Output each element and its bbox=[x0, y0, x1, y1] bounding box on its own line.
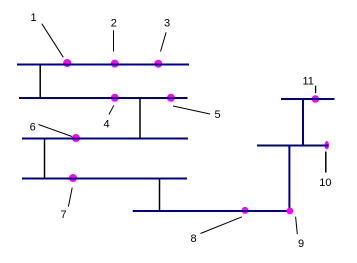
leader line 9 bbox=[296, 217, 298, 235]
leader line 1 bbox=[42, 24, 64, 58]
leader line 4 bbox=[109, 105, 114, 114]
segment line L4 bbox=[22, 178, 187, 180]
connector black V2 bbox=[139, 98, 141, 140]
svg-text:6: 6 bbox=[30, 122, 36, 134]
svg-text:4: 4 bbox=[103, 118, 109, 130]
marker dot 11 bbox=[312, 95, 320, 103]
svg-text:9: 9 bbox=[298, 238, 304, 250]
segment line L2 bbox=[19, 97, 188, 99]
marker dot 7 bbox=[69, 174, 77, 182]
marker dot 10 bbox=[325, 141, 329, 149]
leader line 6 bbox=[39, 125, 73, 137]
connector blue RV1 bbox=[302, 99, 304, 146]
svg-text:3: 3 bbox=[164, 18, 170, 30]
leader tick 10 bbox=[325, 152, 327, 173]
marker dot 2 bbox=[111, 60, 119, 68]
leader line 7 bbox=[68, 188, 72, 207]
marker dot 5 bbox=[167, 94, 175, 102]
marker dot 3 bbox=[154, 60, 162, 68]
marker dot 1 bbox=[63, 59, 71, 67]
segment line L3 bbox=[22, 138, 188, 140]
marker dot 6 bbox=[72, 134, 80, 142]
marker dot 8 bbox=[242, 207, 249, 214]
svg-text:7: 7 bbox=[60, 209, 66, 221]
connector black V4 bbox=[159, 178, 161, 212]
svg-text:10: 10 bbox=[319, 177, 331, 189]
segment line R-mid bbox=[257, 145, 329, 147]
segment line R-top bbox=[281, 98, 335, 100]
connector blue RV2 bbox=[288, 146, 290, 212]
svg-text:11: 11 bbox=[302, 76, 313, 88]
marker dot 9 bbox=[287, 208, 294, 215]
segment line L5 bbox=[133, 210, 291, 212]
svg-text:5: 5 bbox=[215, 109, 221, 121]
svg-text:2: 2 bbox=[111, 17, 117, 29]
svg-text:8: 8 bbox=[191, 233, 197, 245]
leader line 3 bbox=[161, 32, 167, 51]
connector black V3 bbox=[44, 138, 46, 179]
svg-text:1: 1 bbox=[31, 12, 37, 24]
connector black V1 bbox=[39, 64, 41, 99]
leader line 2 bbox=[113, 30, 115, 51]
leader line 8 bbox=[201, 217, 243, 234]
marker dot 4 bbox=[111, 94, 119, 102]
leader line 5 bbox=[173, 106, 210, 114]
leader tick 11 bbox=[315, 86, 317, 93]
segment line L1 bbox=[17, 64, 189, 66]
